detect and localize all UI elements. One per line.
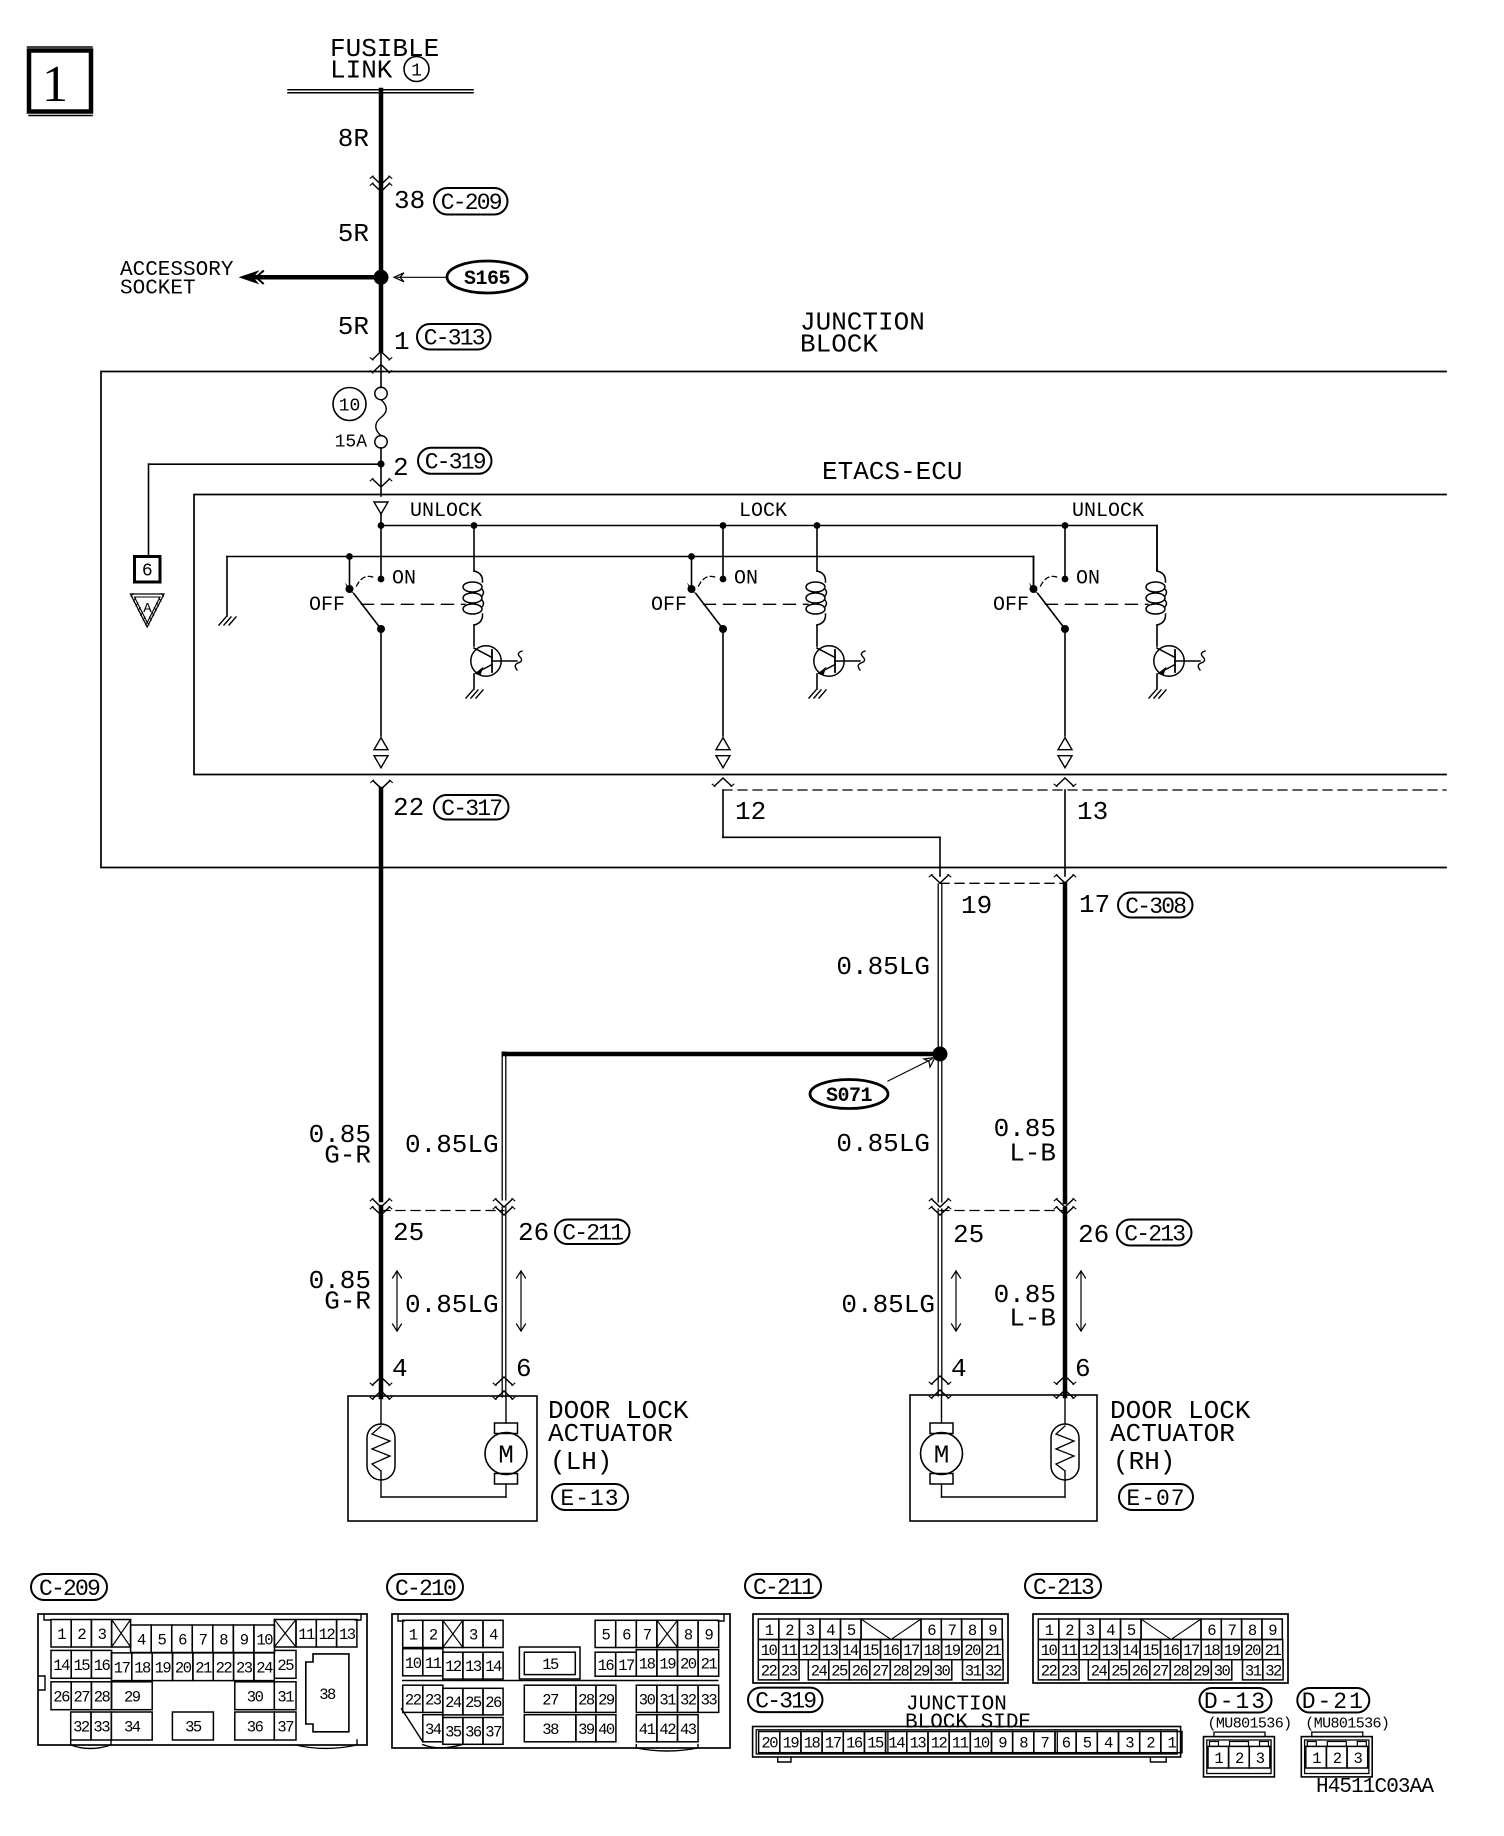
svg-text:27: 27 [872, 1662, 889, 1680]
splice S165 junction dot [374, 270, 388, 284]
svg-text:12: 12 [319, 1626, 336, 1644]
junction node to terminal 6 [377, 460, 384, 467]
connector C-209 title [31, 1574, 107, 1600]
svg-text:8: 8 [1248, 1622, 1257, 1640]
ECU pin entry triangle [374, 502, 388, 514]
svg-text:6: 6 [927, 1622, 936, 1640]
svg-text:16: 16 [1163, 1642, 1180, 1660]
svg-text:25: 25 [277, 1657, 294, 1675]
svg-text:D-21: D-21 [1302, 1689, 1365, 1715]
junction block outline [101, 372, 1446, 868]
svg-text:0.85LG: 0.85LG [405, 1130, 499, 1160]
svg-text:6: 6 [178, 1631, 187, 1649]
svg-text:24: 24 [1091, 1662, 1108, 1680]
connector C-213 pin table [1033, 1614, 1288, 1683]
svg-text:H4511C03AA: H4511C03AA [1316, 1776, 1434, 1799]
C-211 pin 26 chevron [496, 1199, 513, 1207]
svg-text:E-07: E-07 [1126, 1486, 1185, 1512]
connector C-209 reference [434, 188, 508, 215]
ECU exit triangles 2 [716, 738, 730, 750]
C-210 pin 15 [519, 1647, 580, 1679]
LH motor [505, 1396, 507, 1423]
svg-text:OFF: OFF [993, 594, 1029, 617]
svg-text:38: 38 [394, 186, 425, 216]
svg-text:23: 23 [781, 1662, 798, 1680]
svg-text:12: 12 [445, 1658, 462, 1676]
actuator RH entry chevrons [932, 1376, 949, 1384]
svg-text:19: 19 [944, 1642, 961, 1660]
svg-text:4: 4 [951, 1354, 967, 1384]
svg-text:6: 6 [1062, 1735, 1071, 1753]
svg-text:27: 27 [542, 1691, 559, 1709]
door lock actuator LH box [348, 1396, 537, 1521]
wire to accessory socket (thick) [252, 275, 381, 280]
svg-text:14: 14 [888, 1735, 905, 1753]
wire S071 horizontal (thick) [505, 1052, 940, 1057]
svg-text:16: 16 [598, 1657, 615, 1675]
connector D-13 title [1200, 1688, 1272, 1713]
mechanical link 3 [1046, 603, 1149, 605]
wire 0.85 G-R (thick) pin22 to C-211 [379, 789, 384, 1200]
svg-text:1: 1 [394, 327, 410, 357]
connector D-21 pin housing [1312, 1732, 1363, 1737]
svg-text:(MU801536): (MU801536) [1208, 1716, 1292, 1733]
feed bus wire [381, 525, 1157, 527]
svg-text:27: 27 [73, 1688, 90, 1706]
svg-text:14: 14 [842, 1642, 859, 1660]
svg-text:C-209: C-209 [441, 190, 502, 216]
wire fuse to pin 2 [380, 448, 382, 496]
svg-text:11: 11 [425, 1655, 442, 1673]
svg-text:23: 23 [236, 1659, 253, 1677]
svg-text:4: 4 [1106, 1622, 1115, 1640]
transistor 3 [1154, 646, 1184, 676]
svg-text:3: 3 [1353, 1750, 1362, 1768]
connector C-319 title [748, 1688, 823, 1713]
svg-text:22: 22 [216, 1659, 233, 1677]
svg-text:26: 26 [485, 1694, 502, 1712]
svg-text:25: 25 [953, 1220, 984, 1250]
connector pass 38 C-209 double chevron [373, 177, 390, 185]
svg-text:35: 35 [445, 1724, 462, 1742]
LH resistor wire [380, 1396, 382, 1424]
svg-text:7: 7 [199, 1631, 208, 1649]
arrow from S071 label [888, 1059, 932, 1081]
svg-text:37: 37 [485, 1724, 502, 1742]
svg-text:12: 12 [735, 797, 766, 827]
svg-text:11: 11 [298, 1626, 315, 1644]
svg-text:ON: ON [734, 568, 758, 591]
circled 1 [404, 57, 429, 82]
svg-text:18: 18 [134, 1659, 151, 1677]
svg-text:12: 12 [801, 1642, 818, 1660]
arrow from S165 label [397, 276, 447, 278]
svg-text:C-317: C-317 [441, 796, 501, 822]
connector C-313 reference [417, 324, 491, 350]
svg-text:C-209: C-209 [39, 1576, 100, 1602]
svg-text:BLOCK: BLOCK [800, 330, 878, 360]
svg-text:33: 33 [701, 1691, 718, 1709]
svg-text:18: 18 [804, 1735, 821, 1753]
svg-text:21: 21 [1265, 1642, 1282, 1660]
connector C-211 reference [555, 1220, 630, 1245]
svg-text:3: 3 [1125, 1735, 1134, 1753]
svg-text:9: 9 [1268, 1622, 1277, 1640]
terminal box 6 [135, 557, 161, 583]
svg-text:19: 19 [961, 891, 992, 921]
svg-text:19: 19 [155, 1659, 172, 1677]
svg-text:37: 37 [277, 1719, 294, 1737]
svg-text:4: 4 [392, 1354, 408, 1384]
svg-text:8R: 8R [338, 124, 369, 154]
svg-text:33: 33 [93, 1719, 110, 1737]
connector D-13 pin housing [1214, 1732, 1265, 1737]
svg-text:ON: ON [392, 568, 416, 591]
page number box 1 [28, 46, 93, 48]
svg-text:18: 18 [924, 1642, 941, 1660]
connector pass C-313 double chevron up [373, 352, 390, 360]
svg-text:L-B: L-B [1009, 1304, 1056, 1334]
splice label S165 [447, 261, 527, 293]
ECU exit triangles 1 [374, 738, 388, 750]
svg-text:1: 1 [1045, 1622, 1054, 1640]
ground transistor 3 [1156, 674, 1158, 689]
svg-text:(RH): (RH) [1113, 1447, 1175, 1477]
relay coil 3 [1156, 526, 1158, 572]
pin 2 chevron down [373, 479, 390, 487]
svg-text:31: 31 [659, 1691, 676, 1709]
wire 8R/5R trunk (thick) [379, 90, 384, 350]
svg-text:16: 16 [846, 1735, 863, 1753]
svg-text:7: 7 [643, 1627, 652, 1645]
switch output wire 3 [1064, 629, 1066, 736]
svg-text:21: 21 [701, 1656, 718, 1674]
connector D-21 title [1297, 1688, 1369, 1713]
svg-text:10: 10 [339, 397, 361, 417]
svg-text:24: 24 [256, 1659, 273, 1677]
pin 19 chevron [932, 875, 949, 883]
svg-text:8: 8 [1019, 1735, 1028, 1753]
wire 0.85LG to actuator pin 6 (double line) [501, 1207, 503, 1397]
svg-text:2: 2 [429, 1627, 438, 1645]
svg-text:4: 4 [1104, 1735, 1113, 1753]
relay switch 1 [349, 557, 351, 590]
svg-text:30: 30 [639, 1691, 656, 1709]
svg-text:15: 15 [542, 1656, 559, 1674]
svg-text:29: 29 [598, 1691, 615, 1709]
svg-text:24: 24 [811, 1662, 828, 1680]
svg-text:5R: 5R [338, 219, 369, 249]
svg-text:42: 42 [659, 1721, 676, 1739]
pin 13 chevron up [1057, 778, 1074, 786]
svg-text:7: 7 [1228, 1622, 1237, 1640]
connector C-317 reference [434, 795, 509, 820]
svg-text:UNLOCK: UNLOCK [410, 500, 482, 523]
svg-text:A: A [143, 601, 152, 617]
wire 0.85 L-B (thick) to RH actuator pin 6 [1063, 1209, 1068, 1396]
svg-text:C-213: C-213 [1124, 1221, 1185, 1247]
svg-text:26: 26 [852, 1662, 869, 1680]
svg-text:4: 4 [826, 1622, 835, 1640]
svg-text:15A: 15A [335, 433, 368, 453]
circled 10 [333, 388, 366, 421]
relay switch 2 [691, 557, 693, 590]
transistor 1 [471, 646, 501, 676]
svg-text:4: 4 [489, 1627, 498, 1645]
svg-text:10: 10 [1041, 1642, 1058, 1660]
connector C-211 title [745, 1574, 821, 1598]
svg-text:13: 13 [910, 1735, 927, 1753]
svg-text:17: 17 [1183, 1642, 1200, 1660]
svg-text:19: 19 [783, 1735, 800, 1753]
svg-text:26: 26 [53, 1688, 70, 1706]
connector C-210 pin table [392, 1614, 730, 1748]
door lock actuator RH box [910, 1395, 1097, 1521]
svg-text:4: 4 [137, 1631, 146, 1649]
svg-text:C-313: C-313 [424, 326, 485, 352]
svg-text:25: 25 [1111, 1662, 1128, 1680]
ETACS-ECU outline [194, 495, 1446, 775]
svg-text:ON: ON [1076, 568, 1100, 591]
harness arrow left [396, 1271, 398, 1331]
svg-text:32: 32 [680, 1691, 697, 1709]
reference triangle A [131, 594, 165, 627]
svg-text:15: 15 [867, 1735, 884, 1753]
svg-text:C-319: C-319 [425, 450, 486, 476]
svg-text:16: 16 [94, 1657, 111, 1675]
svg-text:6: 6 [142, 562, 153, 582]
RH resistor [1064, 1395, 1066, 1424]
RH motor [941, 1395, 943, 1423]
connector C-308 reference [1118, 893, 1193, 918]
svg-text:28: 28 [578, 1691, 595, 1709]
svg-text:2: 2 [1065, 1622, 1074, 1640]
LH bottom wire [381, 1496, 506, 1498]
svg-text:23: 23 [425, 1691, 442, 1709]
svg-text:S165: S165 [464, 268, 510, 291]
connector C-213 title [1025, 1574, 1101, 1598]
svg-text:20: 20 [175, 1659, 192, 1677]
svg-text:1: 1 [1167, 1735, 1176, 1753]
svg-text:1: 1 [1312, 1750, 1321, 1768]
svg-text:17: 17 [114, 1659, 131, 1677]
svg-text:30: 30 [247, 1688, 264, 1706]
C-211 pin 25 chevron [373, 1199, 390, 1207]
svg-text:8: 8 [684, 1627, 693, 1645]
fuse 10 [375, 387, 387, 399]
svg-text:24: 24 [445, 1694, 462, 1712]
svg-text:10: 10 [761, 1642, 778, 1660]
svg-text:1: 1 [409, 1627, 418, 1645]
connector C-319 pin table [753, 1727, 1181, 1758]
svg-text:14: 14 [485, 1658, 502, 1676]
svg-text:34: 34 [425, 1721, 442, 1739]
svg-text:28: 28 [893, 1662, 910, 1680]
svg-text:C-210: C-210 [395, 1576, 456, 1602]
svg-text:22: 22 [761, 1662, 778, 1680]
switch output wire 2 [722, 629, 724, 736]
arrow to accessory socket [239, 270, 260, 284]
svg-text:LOCK: LOCK [739, 500, 787, 523]
C-213 pin 25 chevron [932, 1199, 949, 1207]
svg-text:10: 10 [256, 1631, 273, 1649]
svg-text:26: 26 [518, 1218, 549, 1248]
RH bottom wire [942, 1496, 1066, 1498]
svg-text:2: 2 [393, 453, 409, 483]
switch common bus wire [227, 556, 1034, 558]
svg-text:1: 1 [1214, 1750, 1223, 1768]
svg-text:OFF: OFF [651, 594, 687, 617]
svg-text:8: 8 [968, 1622, 977, 1640]
svg-text:9: 9 [704, 1627, 713, 1645]
svg-text:5: 5 [1083, 1735, 1092, 1753]
svg-text:13: 13 [465, 1658, 482, 1676]
wire 0.85LG to RH actuator pin 4 (double line) [937, 1209, 939, 1396]
svg-text:5: 5 [157, 1631, 166, 1649]
svg-text:3: 3 [1086, 1622, 1095, 1640]
svg-text:17: 17 [1079, 890, 1110, 920]
svg-text:25: 25 [831, 1662, 848, 1680]
svg-text:22: 22 [393, 793, 424, 823]
C-209 pin 38 [306, 1654, 349, 1732]
svg-text:13: 13 [1102, 1642, 1119, 1660]
svg-text:43: 43 [680, 1721, 697, 1739]
svg-text:20: 20 [761, 1735, 778, 1753]
svg-text:6: 6 [1207, 1622, 1216, 1640]
svg-text:5: 5 [847, 1622, 856, 1640]
svg-text:41: 41 [639, 1721, 656, 1739]
svg-text:15: 15 [73, 1657, 90, 1675]
svg-text:2: 2 [1235, 1750, 1244, 1768]
C-213 pin 26 chevron [1057, 1199, 1074, 1207]
svg-text:40: 40 [598, 1721, 615, 1739]
connector C-213 reference [1117, 1220, 1192, 1246]
svg-text:C-213: C-213 [1033, 1575, 1094, 1601]
svg-text:7: 7 [1040, 1735, 1049, 1753]
svg-text:17: 17 [618, 1657, 635, 1675]
ground transistor 1 [473, 674, 475, 689]
svg-text:9: 9 [988, 1622, 997, 1640]
splice S071 junction dot [933, 1047, 947, 1061]
svg-text:14: 14 [1122, 1642, 1139, 1660]
svg-text:1: 1 [765, 1622, 774, 1640]
svg-text:16: 16 [883, 1642, 900, 1660]
svg-text:OFF: OFF [309, 594, 345, 617]
svg-text:15: 15 [862, 1642, 879, 1660]
wire 0.85 L-B (thick) pin17 down [1063, 884, 1068, 1202]
LH resistor [367, 1424, 395, 1480]
svg-text:36: 36 [465, 1724, 482, 1742]
relay switch 3 [1033, 557, 1035, 590]
svg-text:27: 27 [1152, 1662, 1169, 1680]
svg-text:ETACS-ECU: ETACS-ECU [822, 457, 962, 487]
svg-text:8: 8 [219, 1631, 228, 1649]
svg-text:23: 23 [1061, 1662, 1078, 1680]
relay coil 1 [473, 526, 475, 572]
svg-text:19: 19 [1224, 1642, 1241, 1660]
pin 17 chevron [1057, 875, 1074, 883]
connector C-210 title [387, 1574, 463, 1600]
svg-text:10: 10 [973, 1735, 990, 1753]
svg-text:20: 20 [680, 1656, 697, 1674]
wire pin 13 [1064, 790, 1066, 876]
svg-text:13: 13 [339, 1626, 356, 1644]
svg-text:28: 28 [1173, 1662, 1190, 1680]
svg-text:28: 28 [94, 1688, 111, 1706]
connector C-211 pin table [753, 1614, 1008, 1683]
splice label S071 [810, 1080, 888, 1109]
svg-text:11: 11 [781, 1642, 798, 1660]
svg-text:31: 31 [277, 1688, 294, 1706]
svg-text:0.85LG: 0.85LG [405, 1290, 499, 1320]
svg-text:C-211: C-211 [562, 1221, 623, 1247]
svg-text:1: 1 [42, 56, 68, 113]
relay coil 2 [816, 526, 818, 572]
svg-text:20: 20 [1244, 1642, 1261, 1660]
svg-text:6: 6 [622, 1627, 631, 1645]
svg-text:25: 25 [465, 1694, 482, 1712]
svg-text:38: 38 [542, 1721, 559, 1739]
svg-text:13: 13 [1077, 797, 1108, 827]
svg-text:2: 2 [77, 1626, 86, 1644]
svg-text:39: 39 [578, 1721, 595, 1739]
svg-text:35: 35 [185, 1719, 202, 1737]
wire 0.85LG pin19 down (double line) [937, 884, 939, 1054]
pin 22 chevron [373, 781, 390, 789]
ground (switch common) [219, 617, 226, 625]
svg-text:M: M [934, 1441, 950, 1471]
svg-text:D-13: D-13 [1204, 1689, 1267, 1715]
svg-text:C-308: C-308 [1125, 894, 1186, 920]
svg-text:1: 1 [57, 1626, 66, 1644]
svg-text:0.85LG: 0.85LG [836, 1129, 930, 1159]
svg-text:22: 22 [405, 1691, 422, 1709]
svg-text:21: 21 [985, 1642, 1002, 1660]
svg-text:LINK: LINK [330, 56, 393, 86]
svg-text:12: 12 [1081, 1642, 1098, 1660]
svg-text:20: 20 [964, 1642, 981, 1660]
svg-text:32: 32 [73, 1719, 90, 1737]
svg-text:22: 22 [1041, 1662, 1058, 1680]
fusible link bus bar [288, 89, 473, 91]
svg-text:30: 30 [934, 1662, 951, 1680]
svg-text:21: 21 [195, 1659, 212, 1677]
svg-text:9: 9 [998, 1735, 1007, 1753]
connector C-319 reference [418, 448, 492, 474]
C-210 details [402, 1709, 423, 1742]
svg-text:17: 17 [903, 1642, 920, 1660]
svg-text:34: 34 [124, 1719, 141, 1737]
svg-text:3: 3 [98, 1626, 107, 1644]
svg-text:13: 13 [822, 1642, 839, 1660]
svg-text:C-319: C-319 [755, 1689, 816, 1715]
svg-text:E-13: E-13 [560, 1486, 619, 1512]
svg-text:(LH): (LH) [550, 1447, 612, 1477]
svg-text:11: 11 [952, 1735, 969, 1753]
svg-text:5R: 5R [338, 312, 369, 342]
svg-text:7: 7 [948, 1622, 957, 1640]
svg-text:L-B: L-B [1009, 1139, 1056, 1169]
svg-text:12: 12 [931, 1735, 948, 1753]
svg-text:C-211: C-211 [753, 1575, 814, 1601]
svg-text:G-R: G-R [324, 1141, 371, 1171]
svg-text:2: 2 [1333, 1750, 1342, 1768]
svg-text:25: 25 [393, 1218, 424, 1248]
svg-text:UNLOCK: UNLOCK [1072, 500, 1144, 523]
svg-text:14: 14 [53, 1657, 70, 1675]
svg-text:2: 2 [785, 1622, 794, 1640]
svg-text:3: 3 [469, 1627, 478, 1645]
